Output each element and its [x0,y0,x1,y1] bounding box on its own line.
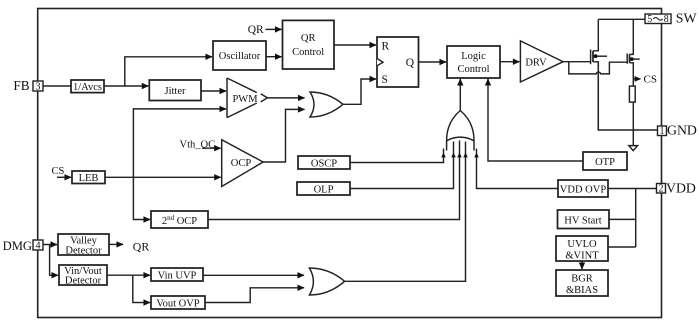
block Valley Detector [58,234,109,257]
svg-text:2: 2 [659,184,664,195]
svg-text:SW: SW [676,11,697,26]
svg-text:QR: QR [133,240,150,254]
wire Vth_OC to OCP [202,147,221,149]
svg-text:Oscillator: Oscillator [219,51,261,62]
block Vin/Vout Detector [59,265,107,287]
ground [629,146,638,151]
svg-text:3: 3 [36,82,41,93]
block Oscillator [213,41,266,70]
wire QR label to QR Control [266,28,282,30]
transistor M2 (right MOSFET) [627,19,640,145]
svg-text:Jitter: Jitter [165,86,186,97]
wire VDD branch down [635,189,637,248]
pin GND (1) [658,123,697,138]
wire LEB node to PWM lower input [133,109,226,177]
wire OR2 to OR5 [345,142,468,282]
wire OLP to OR5 [350,142,456,189]
svg-text:QR: QR [248,24,264,36]
block QR Control [283,20,335,69]
svg-text:GND: GND [667,123,697,138]
wire UVLO to VDD branch [608,246,636,248]
block OSCP [298,156,350,170]
svg-text:Logic: Logic [461,51,486,62]
wire DRV to left MOSFET gate [563,61,590,63]
block UVLO &VINT [556,236,608,262]
wire CS to LEB [57,176,71,178]
wire FB pin to 1/Avcs [43,85,71,87]
wire OR5 output to Logic Control [459,79,461,111]
svg-text:&BIAS: &BIAS [566,285,598,296]
wire source to GND pin [598,62,657,130]
wire UVLO to BGR [581,261,583,269]
svg-text:VDD: VDD [666,181,696,196]
svg-text:Control: Control [457,64,489,75]
block OTP [583,152,627,170]
block Logic Control [447,46,500,78]
transistor M1 (left MOSFET) [591,19,607,130]
wire Oscillator to QR Control [266,56,282,58]
block HV Start [558,210,610,229]
svg-text:8: 8 [664,14,669,25]
wire HV Start to VDD branch [609,218,636,220]
svg-text:VDD OVP: VDD OVP [560,185,607,196]
svg-text:QR: QR [301,33,316,44]
svg-text:Detector: Detector [65,276,102,287]
label CS sense tap [633,78,640,80]
block LEB [72,171,105,184]
wire OCP to OR1 [263,109,304,162]
pin SW (5~8) [645,11,697,26]
svg-text:PWM: PWM [232,94,258,105]
block VDD OVP [558,180,608,197]
svg-text:Vout OVP: Vout OVP [156,299,199,310]
wire drains to SW pin [598,18,645,20]
wire VDD OVP to VDD pin [608,188,657,190]
wire QR Control to R input [334,44,376,46]
svg-text:4: 4 [36,241,41,252]
svg-text:DRV: DRV [525,58,547,69]
wire junction up to Oscillator [125,57,212,86]
block Jitter [149,80,201,101]
wire Vin/Vout Detector to Vin UVP [107,274,150,276]
svg-text:DMG: DMG [3,239,32,253]
wire Valley Detector QR output [109,243,123,245]
svg-text:&VINT: &VINT [565,251,599,262]
svg-text:1/Avcs: 1/Avcs [73,82,102,93]
pin VDD (2) [657,181,696,196]
svg-text:FB: FB [13,78,29,93]
svg-text:CS: CS [644,74,657,86]
block Vin UVP [151,268,203,282]
resistor Rcs [629,86,635,102]
wire VDD OVP to OR5 [474,149,558,189]
block Vout OVP [151,296,205,310]
wire Q to Logic Control [419,61,447,63]
svg-text:CS: CS [52,166,65,177]
svg-text:HV Start: HV Start [564,216,602,227]
amplifier DRV [520,41,563,82]
wire OR1 to S input [343,79,376,104]
svg-text:Detector: Detector [65,246,102,257]
wire Vout OVP to OR2 [205,288,304,303]
wire Vin UVP to OR2 [203,274,304,276]
wire 1/Avcs to Jitter [104,85,148,87]
svg-text:R: R [382,41,390,53]
block 2nd OCP [151,211,208,228]
wire Logic Control to DRV [500,61,519,63]
pin FB (3) [13,78,43,93]
svg-text:S: S [382,74,388,86]
wire DMG to Valley Detector [43,244,57,246]
wire LEB to OCP [105,176,221,178]
svg-text:Vin UVP: Vin UVP [158,271,197,282]
svg-text:Q: Q [406,57,415,69]
block BGR &BIAS [556,270,608,296]
svg-text:BGR: BGR [571,274,593,285]
pin DMG (4) [3,239,43,253]
wire PWM to OR1 [268,97,305,99]
wire OSCP to OR5 [350,149,446,163]
comparator PWM [227,78,268,118]
wire OTP to Logic Control [488,79,583,161]
block OLP [297,182,350,196]
svg-text:1: 1 [660,126,665,137]
wire Jitter to PWM [201,90,226,92]
svg-text:OTP: OTP [595,157,615,168]
wire LEB node down to 2nd OCP [133,177,150,219]
svg-text:OSCP: OSCP [311,159,337,170]
wire 2nd OCP to OR5 [208,141,462,220]
wire DRV to right MOSFET gate with hop [569,62,627,74]
svg-text:OLP: OLP [314,185,334,196]
OR gate OR2 [309,268,344,295]
wire branch down to Vout OVP [133,275,150,302]
svg-text:LEB: LEB [79,173,99,184]
wire DMG branch down to Vin/Vout Detector [50,245,58,276]
block 1/Avcs [71,80,104,93]
comparator OCP [222,140,263,187]
OR gate OR5 (5-input, up) [447,111,474,151]
flip-flop RS latch [377,37,419,87]
svg-text:Control: Control [292,47,324,58]
OR gate OR1 [310,92,343,117]
svg-text:OCP: OCP [231,158,252,169]
svg-text:5: 5 [647,14,652,25]
svg-text:UVLO: UVLO [567,239,597,250]
